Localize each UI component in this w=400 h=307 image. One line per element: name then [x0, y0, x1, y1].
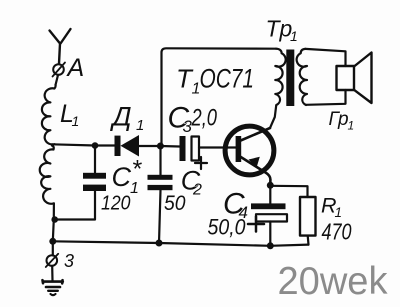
- svg-text:3: 3: [64, 251, 74, 271]
- svg-text:*: *: [132, 156, 143, 184]
- inductor L1 lower section: [40, 146, 54, 242]
- svg-text:C: C: [112, 162, 132, 192]
- wire emitter node to C4: [269, 185, 271, 203]
- svg-text:A: A: [66, 54, 85, 82]
- antenna A: [50, 29, 71, 77]
- wire C3 to base: [199, 146, 236, 148]
- wire C2 to rail: [159, 190, 161, 243]
- node rail C2: [156, 240, 163, 247]
- transformer Tp1 primary winding: [275, 49, 285, 105]
- wire node up and over to transformer (feedback loop): [162, 48, 277, 146]
- wire node to C3: [160, 145, 179, 148]
- svg-text:470: 470: [322, 219, 352, 245]
- svg-text:Д: Д: [110, 102, 132, 132]
- speaker cone: [354, 53, 372, 104]
- wire C4 to rail: [269, 222, 271, 246]
- wire node down to C2: [159, 146, 161, 175]
- svg-text:1: 1: [348, 119, 355, 133]
- svg-text:20wek: 20wek: [278, 260, 389, 303]
- capacitor C1 plates: [83, 173, 106, 179]
- svg-text:OC71: OC71: [200, 64, 255, 94]
- ground terminal circle: [47, 255, 58, 266]
- svg-text:1: 1: [136, 117, 144, 134]
- wire emitter node to R1: [270, 186, 307, 197]
- ground rail wire: [53, 241, 309, 246]
- inductor L1 upper section: [42, 85, 56, 144]
- emitter line: [240, 157, 270, 186]
- svg-text:2: 2: [192, 182, 202, 199]
- transistor base bar: [236, 136, 242, 162]
- earth ground symbol: [43, 280, 63, 295]
- wire antenna to coil: [56, 75, 59, 85]
- plus sign C3: [195, 157, 207, 169]
- wire C1 node to diode: [95, 144, 115, 146]
- capacitor C3 (electrolytic): [180, 136, 200, 161]
- svg-text:50,0: 50,0: [208, 215, 247, 240]
- svg-text:Гр: Гр: [329, 109, 349, 130]
- node ground rail left: [49, 238, 56, 245]
- svg-text:Tp: Tp: [266, 16, 293, 42]
- node rail C4: [267, 242, 274, 249]
- svg-text:50: 50: [164, 192, 186, 215]
- svg-text:120: 120: [101, 193, 131, 215]
- diode D1: [115, 135, 140, 157]
- emitter arrow (PNP): [249, 157, 260, 168]
- wire C1 bottom to coil: [55, 191, 95, 220]
- wire coil tap to C1 node: [52, 144, 95, 145]
- node detector (4-way): [157, 143, 164, 150]
- wire collector to transformer primary: [270, 106, 276, 129]
- wire R1 to rail: [307, 236, 310, 245]
- collector line: [240, 128, 271, 141]
- transformer core: [286, 50, 294, 107]
- node emitter junction: [267, 182, 274, 189]
- wire C1 node down: [94, 146, 96, 173]
- wire to ground terminal: [52, 241, 54, 255]
- resistor R1: [300, 197, 316, 236]
- capacitor C2 plates: [148, 175, 173, 180]
- svg-text:2,0: 2,0: [191, 105, 218, 132]
- plus sign C4: [248, 217, 264, 232]
- node coil/C1 return: [51, 216, 58, 223]
- wire diode to node: [139, 145, 160, 147]
- svg-text:1: 1: [290, 28, 298, 44]
- transformer Tp1 secondary winding: [297, 49, 307, 105]
- node diode/C1: [92, 142, 99, 149]
- wire secondary bottom to speaker: [306, 90, 346, 105]
- svg-text:1: 1: [72, 113, 80, 129]
- speaker Gr1 driver box: [337, 66, 355, 90]
- wire terminal to earth: [51, 267, 53, 281]
- wire secondary top to speaker: [306, 49, 346, 66]
- capacitor C4 plates (electrolytic): [251, 203, 286, 209]
- transistor T1 circle: [225, 126, 274, 175]
